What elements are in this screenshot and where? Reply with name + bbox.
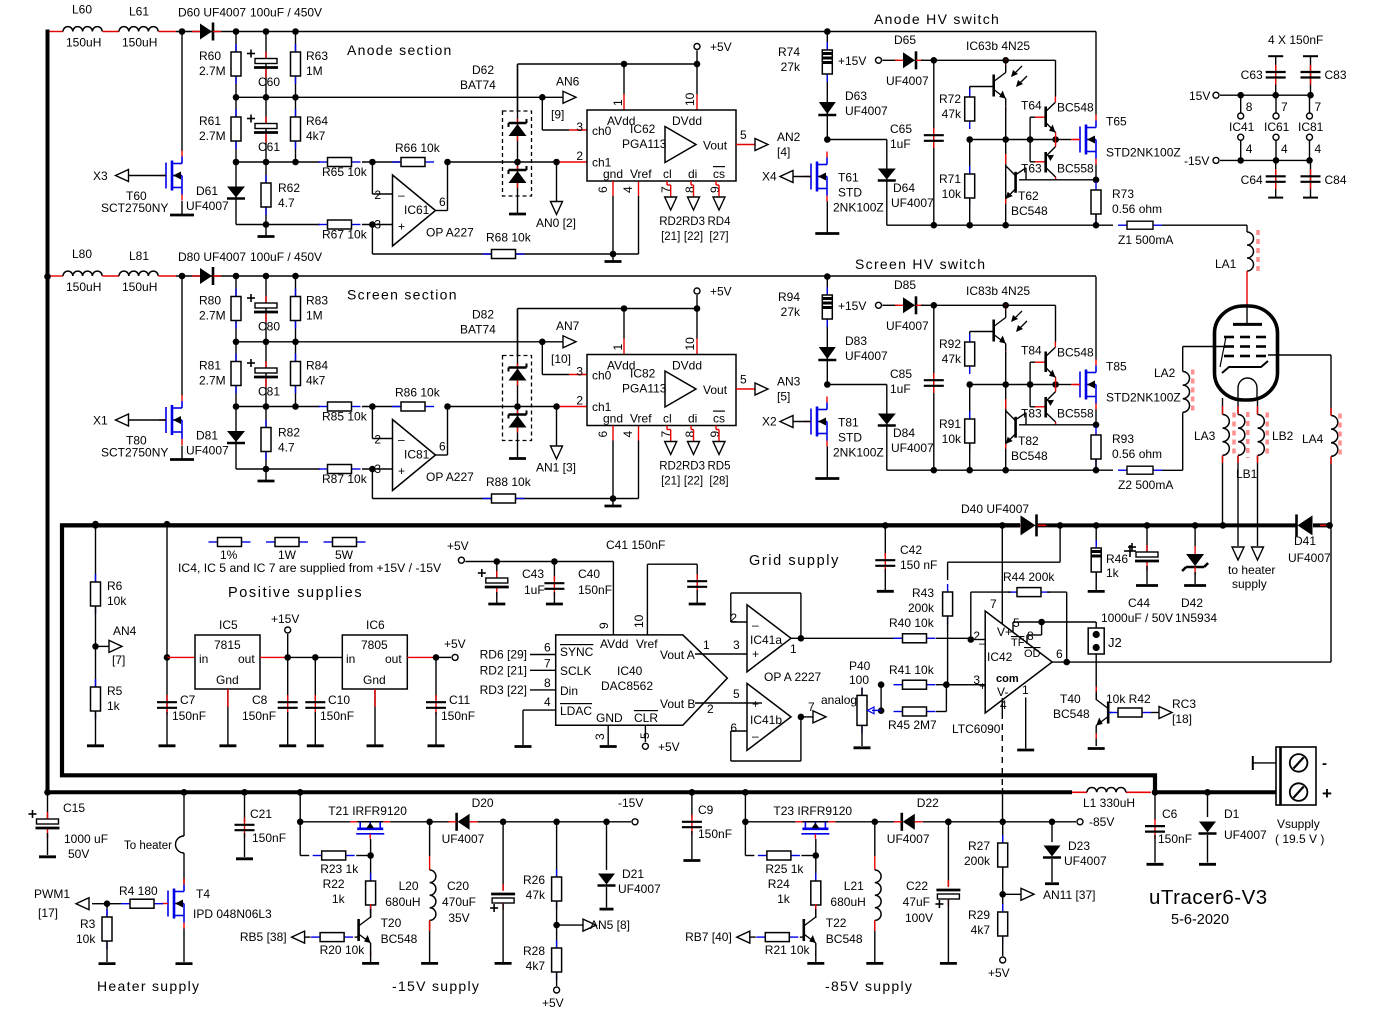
svg-text:[17]: [17] bbox=[38, 906, 58, 920]
ground bbox=[39, 855, 56, 858]
svg-text:27k: 27k bbox=[781, 60, 801, 74]
svg-text:4: 4 bbox=[1281, 142, 1288, 156]
svg-text:UF4007: UF4007 bbox=[1224, 828, 1267, 842]
label R86 bbox=[395, 386, 441, 400]
svg-text:C22: C22 bbox=[906, 879, 928, 893]
wire bbox=[934, 59, 1056, 61]
svg-text:R41 10k: R41 10k bbox=[889, 663, 935, 677]
svg-text:Vout A: Vout A bbox=[660, 648, 695, 662]
fuse Z1 bbox=[1118, 221, 1162, 229]
ground bbox=[877, 590, 894, 593]
pin number bbox=[1281, 142, 1288, 156]
junction bbox=[742, 789, 749, 796]
wire bbox=[235, 97, 237, 162]
wire bbox=[557, 924, 583, 926]
wire gnd pin bbox=[612, 181, 614, 196]
svg-text:( 19.5 V ): ( 19.5 V ) bbox=[1275, 832, 1324, 846]
ground bbox=[815, 477, 839, 480]
svg-text:LA2: LA2 bbox=[1154, 366, 1176, 380]
label R74 bbox=[778, 45, 801, 74]
wire RD6 [29] bbox=[530, 654, 556, 656]
svg-text:T40: T40 bbox=[1060, 692, 1081, 706]
wire bbox=[314, 657, 316, 700]
label C20 bbox=[442, 879, 476, 925]
wire bbox=[874, 920, 876, 962]
ground bbox=[1045, 882, 1059, 885]
IC40 DAC8562 bbox=[556, 635, 728, 725]
transistor T40 bbox=[1096, 687, 1108, 739]
wire bbox=[1019, 179, 1096, 181]
svg-text:X4: X4 bbox=[762, 170, 777, 184]
svg-text:1N5934: 1N5934 bbox=[1175, 611, 1217, 625]
junction bbox=[966, 136, 973, 143]
ground bbox=[1184, 584, 1206, 587]
label R24 bbox=[768, 877, 791, 906]
wire bbox=[969, 385, 971, 420]
svg-text:R83: R83 bbox=[306, 294, 328, 308]
wire Vout B bbox=[695, 702, 747, 704]
label L60 bbox=[66, 3, 101, 50]
jumper J2 bbox=[1088, 628, 1104, 654]
junction bbox=[945, 819, 952, 826]
connector RC3 bbox=[1159, 707, 1172, 719]
wire bbox=[971, 639, 985, 641]
svg-text:BC548: BC548 bbox=[1011, 449, 1048, 463]
label C22 bbox=[903, 879, 933, 925]
capacitor C60 bbox=[247, 50, 278, 78]
svg-text:680uH: 680uH bbox=[385, 895, 420, 909]
label R92 bbox=[939, 337, 962, 366]
resistor R45 bbox=[894, 707, 936, 716]
svg-text:4k7: 4k7 bbox=[306, 374, 326, 388]
wire RD3 bbox=[691, 181, 694, 197]
connector RD2 bbox=[665, 197, 677, 210]
svg-text:in: in bbox=[346, 652, 355, 666]
svg-text:2.7M: 2.7M bbox=[199, 64, 226, 78]
junction bbox=[1052, 136, 1059, 143]
junction bbox=[514, 159, 521, 166]
label R64 bbox=[306, 114, 328, 143]
wire bbox=[1005, 352, 1007, 470]
svg-text:150nF: 150nF bbox=[441, 709, 475, 723]
label R3 bbox=[76, 917, 96, 946]
junction bbox=[694, 61, 701, 68]
svg-text:C7: C7 bbox=[180, 693, 196, 707]
ground bbox=[515, 745, 532, 748]
svg-text:6: 6 bbox=[544, 641, 551, 655]
svg-text:L60: L60 bbox=[72, 3, 92, 17]
connector X2 bbox=[780, 416, 793, 428]
wire bbox=[793, 421, 811, 423]
svg-text:1k: 1k bbox=[107, 699, 121, 713]
svg-text:TF: TF bbox=[1011, 637, 1025, 649]
ground bbox=[258, 480, 275, 483]
svg-text:R67 10k: R67 10k bbox=[322, 228, 368, 242]
wire bbox=[374, 689, 376, 745]
connector X1 bbox=[116, 414, 129, 426]
connector analog B bbox=[813, 711, 826, 723]
connector RD2 bbox=[665, 442, 677, 455]
svg-text:C60: C60 bbox=[258, 75, 280, 89]
junction bbox=[882, 522, 889, 529]
junction bbox=[1144, 522, 1151, 529]
svg-text:OP A227: OP A227 bbox=[426, 470, 474, 484]
label C21 bbox=[250, 807, 286, 845]
svg-text:10k: 10k bbox=[942, 187, 962, 201]
svg-text:C64: C64 bbox=[1241, 173, 1263, 187]
wire feedback bbox=[731, 593, 801, 638]
junction bbox=[824, 381, 831, 388]
connector heater 2 bbox=[1252, 547, 1264, 560]
wire bbox=[936, 685, 946, 712]
wire bbox=[236, 96, 296, 98]
svg-text:C61: C61 bbox=[258, 140, 280, 154]
wire rail bbox=[887, 224, 1113, 226]
svg-text:1uF: 1uF bbox=[890, 382, 911, 396]
transistor T64 bbox=[1046, 97, 1056, 140]
label R80 bbox=[199, 294, 226, 323]
connector RD3 bbox=[688, 442, 700, 455]
svg-text:7805: 7805 bbox=[361, 638, 388, 652]
svg-text:10: 10 bbox=[683, 337, 697, 351]
wire bbox=[861, 688, 863, 695]
capacitor C61 bbox=[247, 115, 278, 143]
label D42 bbox=[1175, 596, 1217, 625]
wire bbox=[236, 341, 296, 343]
wire bbox=[1035, 406, 1046, 408]
svg-text:BC558: BC558 bbox=[1057, 407, 1094, 421]
label X4 bbox=[762, 170, 777, 184]
junction bbox=[263, 273, 270, 280]
svg-text:+5V: +5V bbox=[710, 285, 732, 299]
svg-text:BC548: BC548 bbox=[381, 932, 418, 946]
label RD2 bbox=[659, 461, 682, 488]
wire bbox=[1154, 792, 1156, 820]
svg-text:R4 180: R4 180 bbox=[119, 884, 158, 898]
svg-text:IC41: IC41 bbox=[1229, 120, 1255, 134]
ground bbox=[421, 962, 438, 965]
label PWM1 bbox=[34, 887, 70, 920]
label R44 bbox=[1003, 570, 1055, 584]
label +15V bbox=[838, 54, 866, 68]
capacitor C20 bbox=[490, 884, 515, 912]
diode D85 bbox=[895, 296, 924, 314]
wire bbox=[288, 656, 342, 658]
svg-text:UF4007: UF4007 bbox=[887, 832, 930, 846]
svg-text:Vref: Vref bbox=[636, 637, 658, 651]
svg-text:AVdd: AVdd bbox=[600, 637, 628, 651]
wire pin10 bbox=[696, 94, 698, 110]
label OPA2227 bbox=[764, 670, 821, 684]
ground bbox=[428, 744, 445, 747]
resistor R68 bbox=[483, 250, 525, 259]
junction bbox=[1002, 381, 1009, 388]
wire bbox=[129, 419, 167, 421]
svg-text:50V: 50V bbox=[68, 847, 89, 861]
IC41b labels bbox=[730, 697, 815, 743]
svg-text:IC40: IC40 bbox=[617, 664, 643, 678]
svg-text:1: 1 bbox=[611, 344, 625, 351]
wire bbox=[553, 562, 555, 581]
wire bbox=[696, 51, 698, 65]
wire bbox=[1257, 406, 1259, 415]
junction bbox=[263, 94, 270, 101]
svg-text:To heater: To heater bbox=[124, 840, 172, 852]
junction bbox=[44, 789, 51, 796]
wire bbox=[95, 711, 97, 745]
label Vsupply bbox=[1275, 817, 1324, 846]
wire bbox=[1108, 712, 1112, 714]
svg-text:RD2 [21]: RD2 [21] bbox=[480, 663, 527, 677]
wire RD3 bbox=[691, 426, 694, 442]
svg-text:2: 2 bbox=[576, 149, 583, 163]
ground bbox=[219, 744, 236, 747]
ground bbox=[170, 458, 194, 461]
wire bbox=[933, 305, 935, 470]
diode D80 bbox=[192, 267, 221, 285]
wire bbox=[1151, 712, 1159, 714]
junction bbox=[999, 819, 1006, 826]
wire bbox=[1126, 791, 1151, 793]
title Heater supply bbox=[97, 978, 200, 994]
svg-text:5: 5 bbox=[740, 373, 747, 387]
wire pin10 bbox=[696, 339, 698, 355]
open terminal bbox=[458, 557, 464, 563]
label AN1 bbox=[536, 461, 576, 475]
label to heater supply bbox=[1228, 563, 1275, 591]
wire Vout bbox=[736, 144, 755, 146]
svg-text:3: 3 bbox=[576, 120, 583, 134]
inductor L21 bbox=[875, 870, 881, 920]
wire bbox=[106, 904, 108, 917]
svg-text:R94: R94 bbox=[778, 290, 800, 304]
label C44 bbox=[1101, 596, 1173, 625]
svg-text:SCLK: SCLK bbox=[560, 664, 591, 678]
svg-text:Vref: Vref bbox=[630, 412, 652, 426]
wire bbox=[167, 656, 195, 658]
svg-text:LA1: LA1 bbox=[1215, 257, 1237, 271]
svg-text:V-: V- bbox=[997, 685, 1008, 699]
wire pin stub bbox=[1240, 140, 1242, 160]
wire bbox=[92, 903, 107, 905]
label T23 bbox=[773, 804, 852, 818]
junction bbox=[233, 403, 240, 410]
wire bbox=[1002, 936, 1004, 956]
svg-text:R3: R3 bbox=[80, 917, 96, 931]
svg-text:Z2 500mA: Z2 500mA bbox=[1118, 478, 1173, 492]
svg-text:BAT74: BAT74 bbox=[460, 323, 496, 337]
wire bottom rail bbox=[1153, 790, 1276, 794]
wire Vout bbox=[736, 388, 755, 390]
svg-text:+: + bbox=[752, 647, 759, 661]
wire bbox=[1330, 457, 1332, 465]
label C85 bbox=[890, 367, 912, 396]
label R94 bbox=[778, 290, 801, 319]
ground bbox=[1088, 747, 1105, 750]
label R87 bbox=[322, 472, 368, 486]
label RD3 bbox=[682, 216, 705, 243]
tube cathode bbox=[1222, 361, 1268, 373]
connector AN6 bbox=[563, 91, 576, 103]
wire bbox=[1001, 698, 1003, 713]
title -85V supply bbox=[825, 978, 913, 994]
label T62 bbox=[1011, 189, 1048, 218]
svg-text:150nF: 150nF bbox=[698, 827, 732, 841]
svg-text:R20 10k: R20 10k bbox=[320, 943, 366, 957]
wire bbox=[235, 407, 237, 470]
svg-text:2: 2 bbox=[374, 433, 381, 447]
svg-text:L81: L81 bbox=[129, 249, 149, 263]
svg-text:STD2NK100Z: STD2NK100Z bbox=[1106, 391, 1181, 405]
wire bbox=[235, 162, 237, 225]
svg-text:D20: D20 bbox=[472, 796, 494, 810]
svg-text:9: 9 bbox=[708, 431, 722, 438]
junction bbox=[621, 305, 628, 312]
wire bbox=[1055, 60, 1057, 96]
svg-text:PWM1: PWM1 bbox=[34, 887, 70, 901]
svg-text:150nF: 150nF bbox=[172, 709, 206, 723]
junction bbox=[233, 94, 240, 101]
wire gnd pin bbox=[612, 426, 614, 441]
wire bbox=[96, 645, 110, 647]
wire bbox=[1095, 165, 1097, 180]
svg-text:RC3: RC3 bbox=[1172, 697, 1196, 711]
label C60 bbox=[258, 75, 280, 89]
op-amp labels bbox=[374, 433, 474, 485]
junction bbox=[494, 558, 501, 565]
svg-text:UF4007: UF4007 bbox=[845, 349, 888, 363]
label AN2 bbox=[777, 130, 801, 159]
wire bbox=[166, 712, 168, 745]
wire bbox=[1072, 791, 1087, 793]
wire bbox=[606, 887, 608, 908]
inductor LB1 bbox=[1238, 415, 1245, 456]
IC6 labels bbox=[346, 618, 402, 687]
wire bbox=[260, 656, 288, 658]
junction bbox=[263, 28, 270, 35]
svg-text:IC82: IC82 bbox=[630, 367, 656, 381]
wire bbox=[1003, 893, 1021, 895]
label L61 bbox=[122, 5, 157, 50]
svg-text:4: 4 bbox=[544, 695, 551, 709]
wire pin1 bbox=[1025, 697, 1027, 748]
junction bbox=[297, 789, 304, 796]
resistor R25 bbox=[758, 851, 800, 860]
transistor T23 IRFR9120 bbox=[795, 822, 835, 839]
pin number bbox=[1315, 100, 1322, 114]
wire bbox=[1005, 399, 1007, 409]
svg-text:D83: D83 bbox=[845, 334, 867, 348]
junction bbox=[742, 819, 749, 826]
svg-text:27k: 27k bbox=[781, 305, 801, 319]
svg-text:GND: GND bbox=[596, 711, 623, 725]
wire bbox=[691, 831, 693, 859]
wire bbox=[861, 725, 863, 746]
wire gate bbox=[815, 839, 817, 856]
wire bbox=[95, 606, 97, 646]
svg-text:6: 6 bbox=[439, 440, 446, 454]
wire RD2 bbox=[667, 426, 671, 442]
label R63 bbox=[306, 49, 328, 78]
svg-text:47k: 47k bbox=[526, 888, 546, 902]
svg-text:100uF / 450V: 100uF / 450V bbox=[250, 250, 322, 264]
open terminal bbox=[554, 987, 560, 993]
label D65 bbox=[886, 33, 929, 88]
label R85 bbox=[322, 410, 368, 424]
svg-text:STD: STD bbox=[838, 431, 862, 445]
resistor R88 bbox=[483, 494, 525, 503]
svg-text:100uF / 450V: 100uF / 450V bbox=[250, 6, 322, 20]
junction bbox=[292, 403, 299, 410]
wire bbox=[355, 936, 359, 938]
open terminal bbox=[1238, 113, 1244, 119]
svg-text:PGA113: PGA113 bbox=[622, 137, 667, 151]
label T64 bbox=[1021, 99, 1094, 115]
wire bbox=[800, 936, 804, 938]
resistor R40 bbox=[894, 634, 936, 643]
zener D42 bbox=[1182, 546, 1208, 575]
wire anode bbox=[176, 31, 1096, 33]
svg-text:R6: R6 bbox=[107, 579, 123, 593]
ground bbox=[170, 214, 194, 217]
ground bbox=[1136, 584, 1158, 587]
svg-text:Screen section: Screen section bbox=[347, 287, 458, 303]
legend labels bbox=[220, 548, 354, 562]
wire bbox=[244, 792, 246, 822]
transistor T84 bbox=[1046, 342, 1056, 385]
capacitor C43 bbox=[478, 569, 509, 597]
svg-text:2.7M: 2.7M bbox=[199, 129, 226, 143]
svg-text:R62: R62 bbox=[278, 181, 300, 195]
svg-text:1W: 1W bbox=[278, 548, 297, 562]
resistor R41 bbox=[894, 680, 936, 689]
transistor T65 bbox=[1073, 115, 1096, 165]
label LA4 bbox=[1302, 432, 1324, 446]
svg-text:LDAC: LDAC bbox=[560, 704, 592, 718]
label +15V bbox=[271, 612, 299, 626]
wire bbox=[436, 656, 451, 658]
svg-text:1: 1 bbox=[611, 99, 625, 106]
svg-text:D84: D84 bbox=[893, 426, 915, 440]
resistor R44 bbox=[1008, 588, 1050, 597]
diode D23 bbox=[1043, 846, 1061, 858]
pin 4 bbox=[544, 695, 551, 709]
svg-text:R23 1k: R23 1k bbox=[320, 862, 359, 876]
wire bbox=[517, 364, 519, 386]
wire gnd pin bbox=[612, 196, 614, 254]
svg-text:OD: OD bbox=[1024, 648, 1041, 660]
op-amp IC41a bbox=[747, 605, 791, 672]
wire bbox=[517, 119, 519, 141]
open terminal bbox=[876, 57, 882, 63]
svg-text:R82: R82 bbox=[278, 426, 300, 440]
junction bbox=[92, 522, 99, 529]
wire bbox=[1095, 214, 1097, 225]
label RD3 [22] bbox=[480, 676, 551, 697]
junction bbox=[824, 273, 831, 280]
wire bbox=[1047, 592, 1067, 662]
wire bbox=[362, 406, 400, 408]
svg-text:-15V: -15V bbox=[1184, 154, 1209, 168]
wire bbox=[1222, 398, 1224, 415]
capacitor C40 bbox=[544, 576, 564, 596]
transistor T80 SCT2750NY bbox=[159, 395, 182, 445]
diode pair D82 BAT74 bbox=[503, 356, 532, 441]
diode D63 bbox=[818, 102, 836, 115]
svg-text:R63: R63 bbox=[306, 49, 328, 63]
label D85 bbox=[886, 278, 929, 333]
light arrows bbox=[1011, 311, 1027, 332]
